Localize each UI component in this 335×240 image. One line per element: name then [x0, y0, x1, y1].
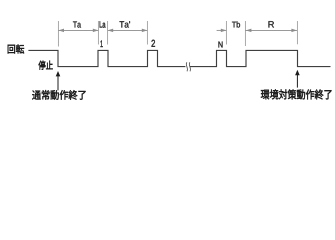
annotation arrow left — [57, 75, 59, 90]
dimension Ta — [58, 29, 98, 31]
extension line x=226.4 — [225, 21, 227, 45]
extension line x=245.4 — [244, 21, 246, 46]
pulse label 2 — [151, 40, 154, 47]
label R — [268, 21, 273, 27]
annotation text 環境対策動作終了 (environmental countermeasure operation end) — [261, 89, 332, 99]
waveform — [28, 50, 330, 66]
annotation arrow right — [296, 74, 298, 88]
level label 回転 (rotation) — [8, 44, 24, 53]
extension line x=98.4 — [97, 21, 99, 45]
break mark — [186, 62, 190, 71]
extension line x=107.6 — [107, 21, 109, 45]
extension line x=147.4 — [146, 21, 148, 45]
level label 停止 (stop) — [38, 61, 52, 70]
dimension Tb leader — [217, 29, 227, 31]
extension line x=58.4 — [57, 21, 59, 47]
label Tb — [232, 21, 240, 27]
label La — [100, 21, 106, 27]
label Ta&#39; — [120, 21, 130, 27]
annotation text 通常動作終了 (normal operation end) — [32, 90, 85, 99]
label Ta — [73, 21, 81, 27]
dimension Ta&#39; — [108, 29, 148, 31]
dimension R — [245, 29, 297, 31]
pulse label 1 — [100, 41, 102, 47]
pulse label N — [218, 42, 222, 48]
extension line x=297.4 — [296, 21, 298, 44]
